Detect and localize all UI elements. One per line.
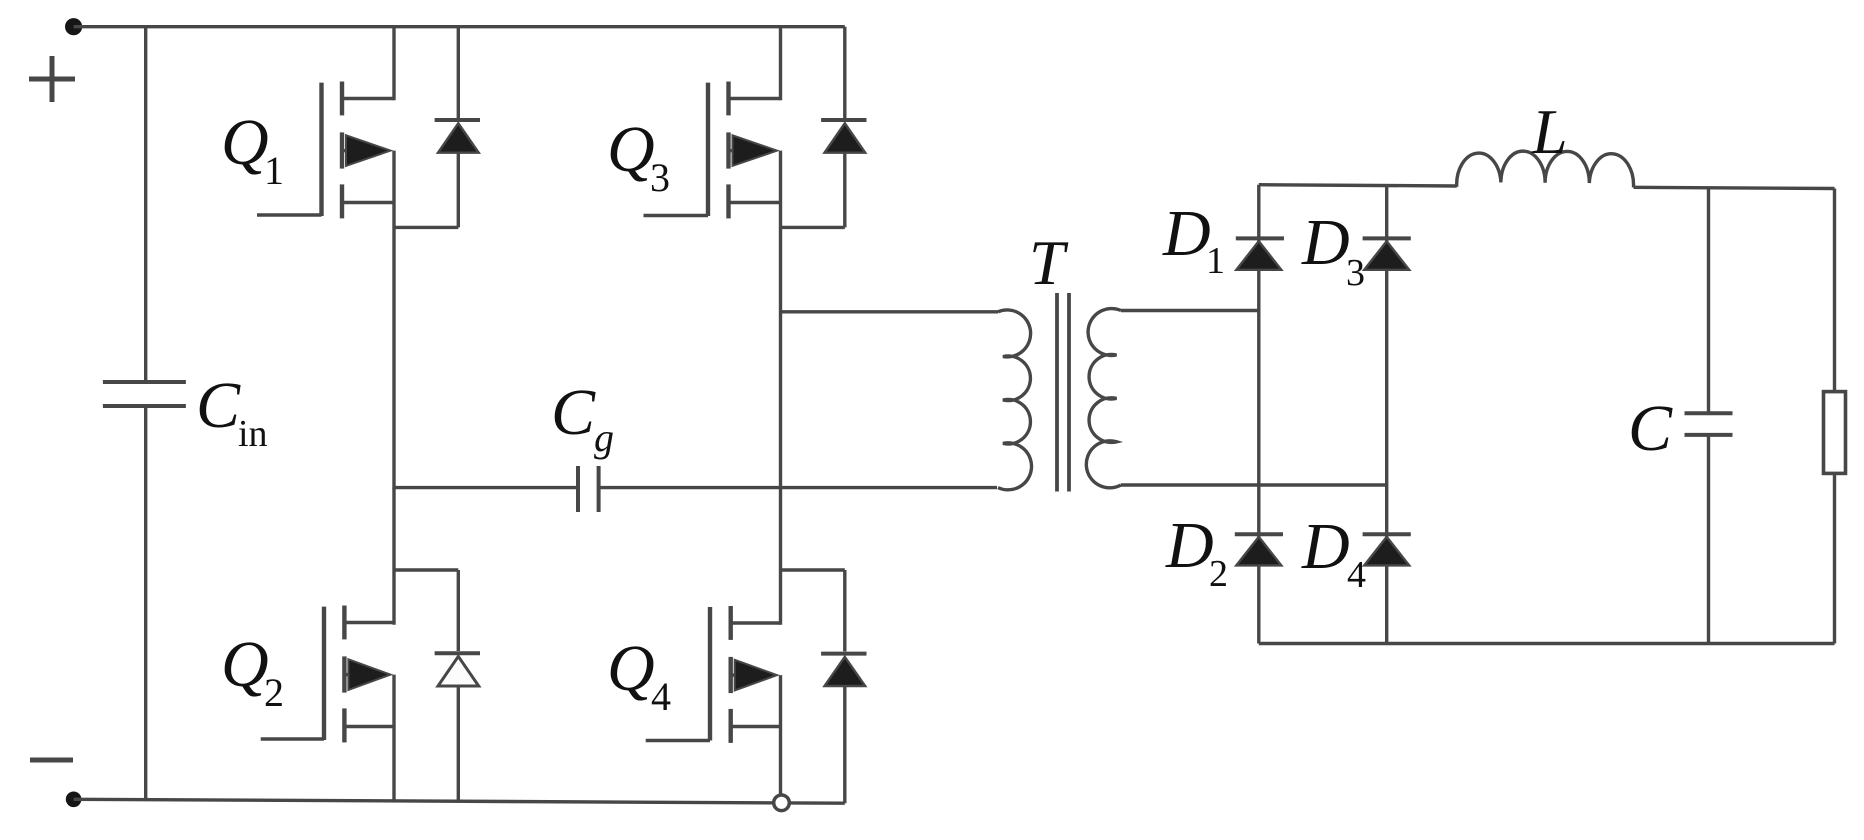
label D4	[1301, 510, 1366, 596]
svg-text:Q: Q	[221, 628, 269, 701]
label L	[1531, 96, 1568, 167]
svg-text:1: 1	[1206, 240, 1225, 282]
svg-text:Q: Q	[607, 632, 655, 705]
wire Cin bottom lead	[144, 406, 147, 800]
label Q4	[607, 632, 671, 719]
svg-text:2: 2	[264, 670, 284, 715]
inductor transformer secondary winding	[1086, 309, 1121, 488]
svg-text:in: in	[238, 413, 268, 455]
label T	[1029, 227, 1069, 298]
svg-text:T: T	[1029, 227, 1069, 298]
wire rectifier top rail to inductor	[1259, 185, 1457, 186]
diode Q2 body diode	[435, 570, 480, 801]
inductor transformer primary winding	[998, 310, 1032, 490]
transistor Q1	[257, 82, 394, 219]
label D2	[1165, 509, 1228, 595]
svg-text:1: 1	[264, 148, 284, 193]
diode Q1 body diode	[435, 120, 480, 227]
wire inductor to load top rail	[1634, 187, 1835, 188]
label D1	[1162, 197, 1225, 282]
label D3	[1301, 206, 1365, 294]
transformer T core	[1057, 293, 1069, 492]
svg-text:4: 4	[1347, 554, 1366, 596]
wire rectifier left branch	[1257, 185, 1260, 644]
wire Q1 body-diode bottom connection	[394, 226, 458, 229]
capacitor Cin	[103, 382, 186, 406]
node negative input terminal	[66, 792, 82, 808]
wire Cg to transformer primary	[599, 486, 997, 489]
diode Q3 body diode	[821, 120, 866, 227]
wire Q1 body-diode top lead	[457, 27, 460, 120]
svg-text:D: D	[1162, 197, 1211, 270]
diode D3	[1363, 238, 1411, 269]
label Q1	[221, 106, 284, 193]
svg-text:D: D	[1165, 509, 1214, 582]
resistor load	[1824, 392, 1846, 474]
wire output bottom rail	[1259, 642, 1835, 645]
svg-text:2: 2	[1209, 553, 1228, 595]
wire top rail (input bus)	[74, 25, 845, 28]
label - (negative input)	[30, 758, 73, 763]
wire Cin top lead	[144, 27, 147, 382]
svg-text:D: D	[1301, 206, 1350, 279]
wire load bottom lead	[1833, 473, 1836, 643]
label Cg	[551, 376, 614, 460]
wire rectifier right branch	[1385, 186, 1388, 644]
svg-text:Q: Q	[607, 113, 655, 186]
wire output capacitor bottom lead	[1707, 435, 1710, 644]
capacitor C (output)	[1685, 413, 1733, 435]
node primary return (open circle)	[774, 795, 790, 811]
label C (output)	[1628, 392, 1673, 465]
capacitor Cg	[578, 466, 599, 512]
wire Q1 drain (to top rail)	[392, 27, 395, 101]
wire right-leg to transformer primary top	[781, 310, 999, 313]
wire Q3 body-diode bottom connection	[781, 226, 845, 229]
wire load top lead	[1833, 189, 1836, 392]
svg-text:L: L	[1531, 96, 1568, 167]
diode D4	[1363, 534, 1411, 565]
label Q2	[221, 628, 284, 715]
label Cin	[196, 369, 268, 455]
wire Q3 body-diode top lead	[843, 27, 846, 120]
wire left-leg to Cg	[394, 486, 578, 489]
svg-text:C: C	[1628, 392, 1673, 465]
diode D2	[1235, 534, 1283, 565]
transistor Q4	[646, 606, 781, 743]
wire transformer secondary bottom lead	[1121, 483, 1388, 486]
svg-text:C: C	[196, 369, 241, 442]
wire Q1 source / left leg upper	[392, 151, 395, 490]
svg-text:Q: Q	[221, 106, 269, 179]
wire Q4 drain to body-diode jog	[781, 568, 845, 571]
svg-text:C: C	[551, 376, 596, 449]
transistor Q2	[261, 606, 394, 743]
svg-text:3: 3	[1346, 252, 1365, 294]
wire transformer secondary top lead	[1121, 309, 1259, 312]
wire Q4 source to output node	[779, 675, 782, 795]
svg-text:3: 3	[650, 155, 670, 200]
wire output capacitor top lead	[1707, 188, 1710, 413]
node positive input terminal	[65, 18, 82, 35]
label + (positive input)	[29, 56, 75, 102]
svg-text:4: 4	[651, 674, 671, 719]
transistor Q3	[644, 82, 781, 219]
label Q3	[607, 113, 670, 200]
svg-text:D: D	[1301, 510, 1350, 583]
inductor L	[1457, 151, 1634, 187]
diode Q4 body diode	[821, 570, 866, 803]
svg-text:g: g	[594, 415, 614, 460]
wire Q3 drain (to top rail)	[779, 27, 782, 101]
wire Q3 source / right leg	[779, 151, 782, 625]
wire Q2 drain (left leg lower)	[392, 488, 395, 625]
wire Q2 drain to body-diode jog	[394, 568, 458, 571]
diode D1	[1236, 238, 1284, 269]
wire bottom rail (input bus)	[74, 799, 845, 803]
wire Q2 source to bottom rail	[392, 675, 395, 802]
